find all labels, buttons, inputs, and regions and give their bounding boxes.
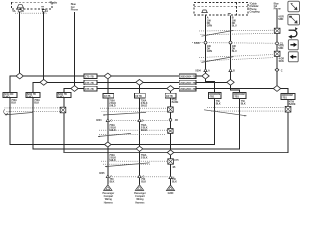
- svg-text:SDN: SDN: [278, 18, 283, 21]
- svg-text:X204: X204: [96, 119, 102, 122]
- svg-text:*Radio: *Radio: [50, 1, 58, 4]
- svg-text:-7B1: -7B1: [234, 96, 240, 99]
- svg-text:BLK: BLK: [172, 181, 177, 184]
- svg-text:G200: G200: [168, 192, 174, 195]
- svg-text:3 MO: 3 MO: [58, 95, 64, 98]
- svg-text:GRN: GRN: [207, 24, 212, 27]
- svg-text:Harness: Harness: [135, 201, 145, 204]
- svg-text:2 MO: 2 MO: [4, 95, 10, 98]
- svg-text:4B: 4B: [172, 166, 175, 169]
- svg-text:BLK: BLK: [241, 102, 246, 105]
- svg-text:5A: 5A: [13, 10, 16, 13]
- svg-text:-7B1: -7B1: [282, 97, 288, 100]
- svg-text:BLU: BLU: [232, 24, 237, 27]
- svg-text:-7B1: -7B1: [209, 96, 215, 99]
- svg-text:Harness: Harness: [104, 201, 114, 204]
- svg-text:3 MO: 3 MO: [27, 95, 33, 98]
- svg-text:C75 -7B: C75 -7B: [85, 88, 94, 91]
- svg-text:BLK: BLK: [141, 181, 146, 184]
- svg-text:X205: X205: [99, 172, 105, 175]
- svg-text:Phone: Phone: [274, 8, 282, 11]
- svg-text:SHLD: SHLD: [141, 129, 148, 132]
- svg-text:BARE: BARE: [172, 101, 179, 104]
- svg-text:SDN: SDN: [279, 60, 284, 63]
- svg-text:SDN: SDN: [278, 47, 283, 50]
- svg-text:2003-2004 -7B: 2003-2004 -7B: [180, 88, 196, 91]
- svg-text:Coupling: Coupling: [250, 10, 261, 13]
- svg-text:SHLD: SHLD: [109, 129, 116, 132]
- svg-text:2 BLK: 2 BLK: [141, 157, 148, 160]
- svg-text:GRN: GRN: [207, 50, 212, 53]
- svg-text:SHLD: SHLD: [141, 104, 148, 107]
- svg-text:4B: 4B: [175, 119, 178, 122]
- svg-text:X204: X204: [195, 69, 201, 72]
- svg-text:BLK: BLK: [34, 102, 39, 105]
- svg-text:C2 7B: C2 7B: [166, 95, 173, 98]
- svg-text:2003-2004 -7B: 2003-2004 -7B: [180, 82, 196, 85]
- svg-text:C208: C208: [194, 42, 200, 45]
- svg-text:C2 7B: C2 7B: [104, 95, 111, 98]
- svg-text:Phone: Phone: [71, 8, 79, 11]
- svg-text:C75 -7B: C75 -7B: [85, 76, 94, 79]
- svg-text:BLU: BLU: [232, 50, 237, 53]
- svg-text:BLK: BLK: [11, 102, 16, 105]
- svg-text:2003-2004 -7B: 2003-2004 -7B: [180, 76, 196, 79]
- svg-text:BLK: BLK: [110, 181, 115, 184]
- svg-text:C2 7B: C2 7B: [135, 95, 142, 98]
- svg-text:BARE: BARE: [289, 103, 296, 106]
- svg-text:SHLD: SHLD: [109, 159, 116, 162]
- svg-text:C75: C75: [174, 159, 179, 162]
- svg-text:C75 -7B: C75 -7B: [85, 82, 94, 85]
- svg-text:BLK: BLK: [216, 102, 221, 105]
- svg-text:SHLD: SHLD: [109, 104, 116, 107]
